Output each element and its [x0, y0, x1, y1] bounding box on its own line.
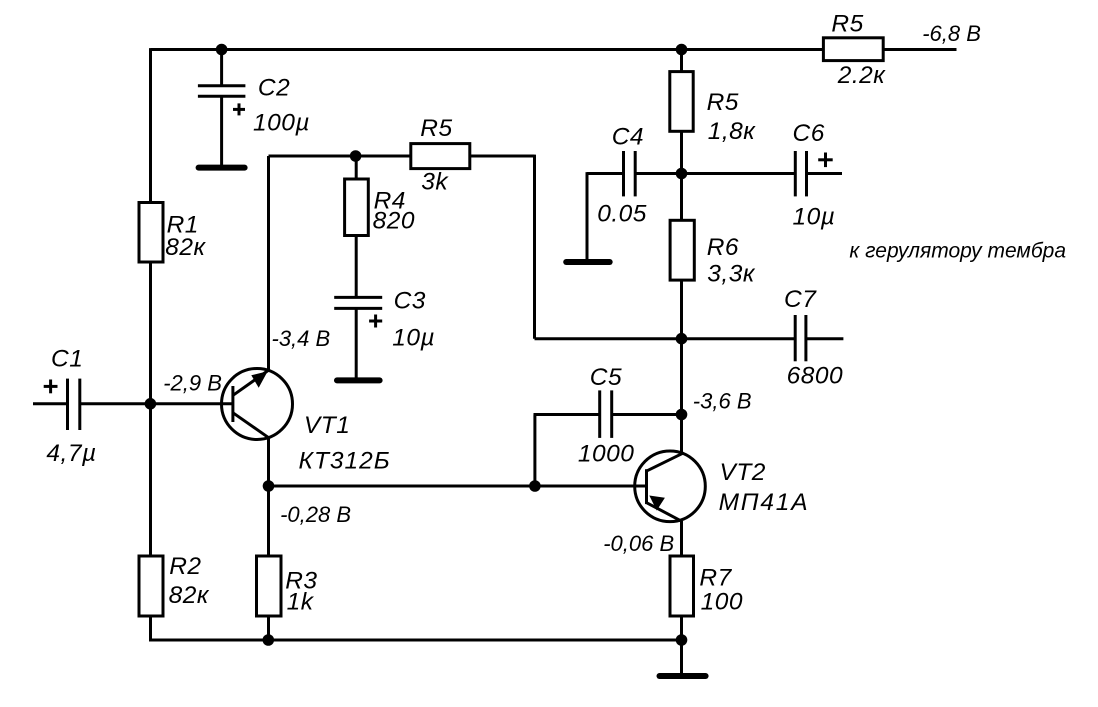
- svg-text:R5: R5: [420, 115, 452, 142]
- capacitor C5: [534, 390, 682, 486]
- resistor R5 2.2к: [823, 38, 883, 61]
- svg-text:-0,06 В: -0,06 В: [603, 531, 674, 556]
- resistor R7: [670, 521, 694, 640]
- svg-text:820: 820: [373, 207, 415, 234]
- svg-text:3,3к: 3,3к: [707, 261, 756, 288]
- transistor VT1: [222, 369, 293, 440]
- ground under C2: [199, 165, 245, 171]
- svg-text:10µ: 10µ: [793, 203, 836, 230]
- wire right rail top: [680, 50, 683, 72]
- wire R5 right: [470, 155, 535, 158]
- capacitor C1: [33, 379, 233, 430]
- wire bottom rail: [269, 639, 682, 642]
- wire emitter rail: [269, 485, 647, 488]
- wire top rail right of R5: [883, 48, 956, 51]
- svg-text:к герулятору тембра: к герулятору тембра: [849, 240, 1066, 263]
- svg-text:82к: 82к: [165, 234, 206, 261]
- svg-text:1k: 1k: [287, 589, 315, 616]
- svg-text:R5: R5: [707, 89, 739, 116]
- svg-text:МП41А: МП41А: [719, 489, 810, 516]
- wire left rail middle: [149, 262, 152, 556]
- svg-text:C3: C3: [394, 287, 426, 314]
- svg-text:C1: C1: [51, 345, 83, 372]
- svg-text:R7: R7: [699, 565, 732, 592]
- resistor R5 3k: [411, 144, 470, 169]
- svg-text:C4: C4: [612, 124, 644, 151]
- node top junction at right rail: [676, 44, 688, 56]
- polarity plus of C3: [369, 315, 382, 328]
- svg-text:R6: R6: [707, 234, 739, 261]
- transistor VT2: [635, 451, 706, 522]
- capacitor C4: [587, 151, 682, 260]
- svg-text:R2: R2: [169, 553, 201, 580]
- capacitor C7: [795, 315, 843, 361]
- node VT2 collector junction: [676, 409, 688, 421]
- svg-text:10µ: 10µ: [392, 325, 435, 352]
- ground under C3: [337, 377, 380, 383]
- svg-text:C5: C5: [590, 364, 622, 391]
- svg-text:2.2к: 2.2к: [837, 62, 887, 89]
- svg-text:4,7µ: 4,7µ: [46, 440, 96, 467]
- svg-text:0.05: 0.05: [597, 201, 647, 228]
- resistor R4: [345, 156, 369, 297]
- svg-text:-2,9 В: -2,9 В: [163, 371, 222, 396]
- node bottom junction at R3: [263, 634, 275, 646]
- svg-text:-6,8 В: -6,8 В: [922, 21, 981, 46]
- polarity plus of C2: [233, 103, 245, 115]
- node C1 base junction: [145, 398, 157, 410]
- polarity plus of C6: [818, 153, 833, 168]
- svg-text:100: 100: [701, 589, 743, 616]
- wire right rail to C4 C6 node: [680, 131, 683, 220]
- svg-text:C6: C6: [793, 120, 825, 147]
- capacitor C6: [682, 151, 843, 196]
- capacitor C2: [198, 50, 246, 166]
- resistor R1: [139, 203, 163, 263]
- svg-text:VT1: VT1: [304, 412, 350, 439]
- svg-text:VT2: VT2: [720, 459, 766, 486]
- node VT1 emitter junction: [263, 480, 275, 492]
- svg-text:1000: 1000: [578, 441, 635, 468]
- polarity plus of C1: [44, 380, 58, 394]
- svg-text:6800: 6800: [787, 363, 844, 390]
- ground under C4: [566, 259, 610, 265]
- resistor R6: [670, 220, 694, 280]
- svg-text:100µ: 100µ: [253, 110, 310, 137]
- ground under R7: [660, 640, 706, 676]
- node C5 junction on emitter rail: [529, 480, 541, 492]
- svg-text:3k: 3k: [421, 169, 449, 196]
- svg-text:-3,6 В: -3,6 В: [693, 389, 752, 414]
- svg-text:1,8к: 1,8к: [708, 118, 757, 145]
- resistor R3: [257, 486, 282, 640]
- svg-text:R5: R5: [831, 11, 863, 38]
- svg-text:-3,4 В: -3,4 В: [272, 326, 331, 351]
- node top junction at C2: [216, 44, 228, 56]
- wire left rail upper: [149, 48, 152, 202]
- wire left rail lower to bottom rail: [151, 616, 271, 640]
- svg-text:-0,28 В: -0,28 В: [280, 502, 351, 527]
- node bottom junction at R7: [676, 634, 688, 646]
- wire down from R5: [533, 155, 536, 339]
- wire right rail R6 to VT2: [680, 280, 683, 453]
- node C4 C6 junction: [676, 168, 688, 180]
- svg-text:КТ312Б: КТ312Б: [299, 448, 391, 475]
- wire VT1 emitter down: [267, 438, 270, 486]
- node R4 R5 junction: [350, 150, 362, 162]
- svg-text:82к: 82к: [169, 582, 210, 609]
- node R6 C7 junction: [676, 333, 688, 345]
- capacitor C3: [334, 297, 382, 377]
- resistor R5 1,8к: [670, 72, 693, 132]
- svg-text:C7: C7: [784, 286, 817, 313]
- svg-text:C2: C2: [258, 75, 290, 102]
- resistor R2: [139, 556, 163, 616]
- wire top rail: [151, 48, 824, 51]
- wire VT1 collector up: [267, 156, 270, 370]
- wire to C7: [535, 337, 795, 340]
- wire collector to R5: [269, 155, 411, 158]
